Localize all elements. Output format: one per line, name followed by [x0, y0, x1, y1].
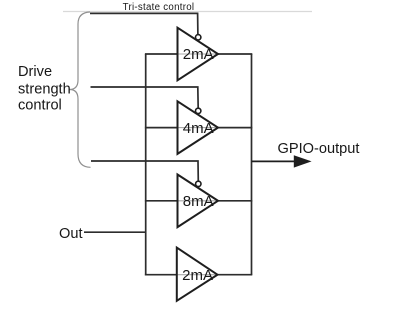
wire: Out input [84, 231, 146, 233]
wire: tri-state control to U1 enable [90, 13, 198, 35]
wire: right output bus [251, 54, 253, 275]
enable bubble on U2 [196, 108, 201, 113]
svg-text:Drive: Drive [18, 64, 52, 80]
wire: U4 output stub [218, 274, 253, 276]
wire: drive strength line 1 to U2 enable [91, 87, 199, 109]
wire: GPIO output [252, 160, 297, 162]
wire: row2 net through buffer (faint) [146, 127, 252, 129]
buffer U3 (8mA tri-state) [178, 175, 219, 228]
svg-text:strength: strength [18, 82, 71, 98]
wire: U2 output stub [218, 127, 253, 129]
wire: row3 net through buffer (faint) [146, 200, 252, 202]
svg-text:control: control [18, 97, 62, 113]
svg-text:8mA: 8mA [183, 193, 214, 210]
svg-text:2mA: 2mA [182, 267, 213, 284]
buffer U2 (4mA tri-state) [178, 101, 219, 154]
svg-text:2mA: 2mA [183, 46, 214, 63]
arrowhead: GPIO output [294, 155, 312, 167]
wire: row4 net through buffer (faint) [146, 274, 252, 276]
wire: U3 input stub [145, 200, 178, 202]
enable bubble on U3 [196, 181, 201, 186]
wire: left input bus [145, 54, 147, 276]
svg-text:Tri-state control: Tri-state control [123, 2, 195, 13]
svg-text:GPIO-output: GPIO-output [278, 141, 360, 157]
wire: U2 input stub [145, 127, 178, 129]
wire: U1 input stub [145, 53, 178, 55]
svg-text:Out: Out [59, 226, 83, 242]
wire: U3 output stub [218, 200, 253, 202]
enable bubble on U1 [196, 35, 201, 40]
svg-text:4mA: 4mA [183, 120, 214, 137]
wire: drive strength line 2 to U3 enable [91, 161, 198, 182]
wire: faint tri-state net line across top [63, 11, 312, 13]
wire: U1 output stub [218, 53, 253, 55]
wire: U4 input stub [145, 274, 178, 276]
buffer U4 (2mA always on) [177, 248, 218, 301]
buffer U1 (2mA tri-state) [178, 28, 219, 81]
wire: row1 net through buffer (faint) [146, 53, 252, 55]
brace: drive strength control group [70, 12, 91, 167]
